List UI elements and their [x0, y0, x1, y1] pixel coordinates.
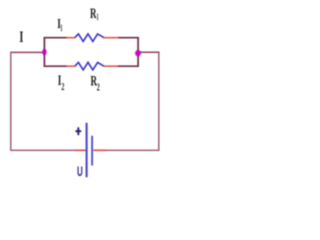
wire R1 branch right stub	[137, 38, 139, 53]
wire left horizontal (main current I)	[11, 51, 45, 53]
resistor R1 zigzag	[75, 34, 104, 42]
node right junction	[135, 50, 141, 56]
svg-text:1: 1	[97, 12, 99, 23]
wire R1 branch right lead	[118, 37, 139, 39]
svg-text:2: 2	[61, 82, 64, 93]
battery short plate (negative)	[91, 136, 93, 166]
wire bottom left segment	[10, 149, 75, 151]
battery left red lead	[75, 149, 86, 151]
wire R2 branch left stub	[43, 52, 45, 66]
wire from right node to right vertical	[138, 51, 159, 53]
resistor R1 left red lead	[67, 37, 76, 39]
svg-text:U: U	[77, 163, 83, 179]
resistor R2 left red lead	[67, 65, 76, 67]
resistor R2 right red lead	[104, 65, 118, 67]
svg-text:I: I	[19, 29, 23, 46]
wire left vertical	[10, 52, 12, 151]
wire R2 branch left lead	[44, 65, 67, 67]
resistor R2 zigzag	[75, 62, 104, 70]
resistor R1 right red lead	[104, 37, 119, 39]
battery right red lead	[93, 149, 107, 151]
svg-text:1: 1	[60, 24, 62, 34]
wire right vertical	[158, 52, 160, 151]
battery plus sign	[75, 127, 81, 135]
wire R2 branch right lead	[118, 65, 139, 67]
wire R1 branch left stub	[43, 38, 45, 53]
svg-text:2: 2	[97, 82, 100, 93]
wire R1 branch left lead	[44, 37, 67, 39]
battery long plate (positive)	[86, 123, 88, 177]
wire R2 branch right stub	[137, 53, 139, 66]
node left junction	[42, 49, 46, 55]
wire bottom right segment	[107, 149, 160, 151]
